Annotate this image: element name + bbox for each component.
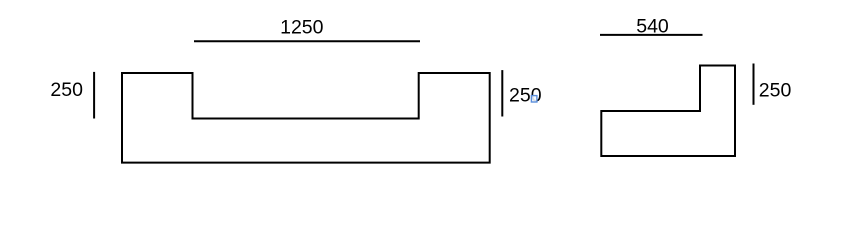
svg-text:540: 540 <box>636 15 669 37</box>
svg-text:250: 250 <box>50 79 83 101</box>
svg-text:250: 250 <box>759 79 792 101</box>
svg-text:1250: 1250 <box>280 17 324 39</box>
